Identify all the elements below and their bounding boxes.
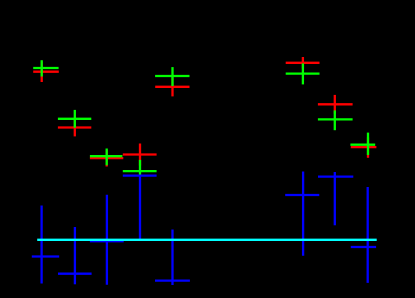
cyan reference line xyxy=(37,239,377,241)
blue point 2 error bars xyxy=(58,227,92,284)
red point 4 error bars xyxy=(123,144,157,166)
blue point 3 error bars xyxy=(90,195,124,285)
green point 4 error bars xyxy=(123,160,157,176)
red point 1 error bars xyxy=(33,62,59,83)
blue point 6 error bars xyxy=(285,172,319,256)
green point 8 error bars xyxy=(350,133,375,155)
blue point 7 error bars xyxy=(318,172,353,225)
blue point 1 error bars xyxy=(32,206,59,284)
green point 2 error bars xyxy=(58,110,91,128)
red point 8 error bars xyxy=(351,137,377,157)
blue point 8 error bars xyxy=(351,187,376,283)
green point 3 error bars xyxy=(90,149,123,166)
green point 5 error bars xyxy=(155,67,189,86)
red point 3 error bars xyxy=(90,150,123,166)
red point 7 error bars xyxy=(318,95,353,114)
green point 7 error bars xyxy=(318,110,353,130)
blue point 5 error bars xyxy=(155,230,190,286)
red point 5 error bars xyxy=(155,77,189,96)
green point 6 error bars xyxy=(286,63,320,84)
green point 1 error bars xyxy=(33,60,58,76)
red point 2 error bars xyxy=(58,119,91,137)
red point 6 error bars xyxy=(286,57,320,69)
blue point 4 error bars xyxy=(123,176,157,240)
